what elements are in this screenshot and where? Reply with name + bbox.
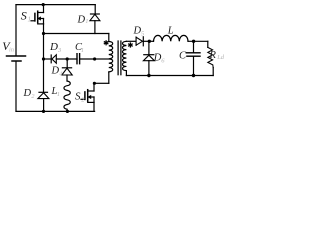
svg-text:1: 1 bbox=[85, 18, 88, 25]
svg-text:5: 5 bbox=[141, 30, 145, 37]
svg-text:1: 1 bbox=[57, 91, 60, 98]
svg-text:D: D bbox=[77, 14, 86, 25]
svg-text:D: D bbox=[49, 41, 58, 53]
svg-text:S: S bbox=[21, 8, 27, 22]
svg-text:S: S bbox=[75, 91, 81, 103]
svg-text:2: 2 bbox=[31, 93, 35, 100]
svg-text:Ld: Ld bbox=[216, 54, 225, 61]
svg-text:1: 1 bbox=[81, 47, 84, 54]
svg-text:3: 3 bbox=[57, 47, 62, 54]
svg-text:6: 6 bbox=[161, 58, 165, 65]
svg-text:D: D bbox=[51, 65, 60, 76]
svg-text:C: C bbox=[179, 50, 187, 61]
svg-text:L: L bbox=[167, 26, 174, 37]
svg-text:in: in bbox=[9, 47, 14, 54]
svg-text:R: R bbox=[209, 50, 217, 61]
svg-text:D: D bbox=[23, 88, 32, 99]
svg-text:1: 1 bbox=[28, 16, 32, 24]
